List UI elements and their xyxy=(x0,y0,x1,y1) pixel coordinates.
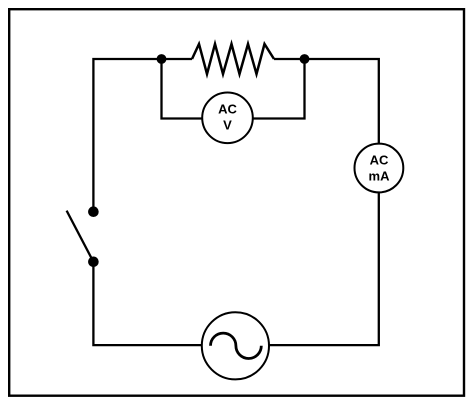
svg-text:AC: AC xyxy=(370,152,389,167)
svg-text:V: V xyxy=(223,118,232,133)
svg-text:mA: mA xyxy=(369,169,391,184)
svg-text:AC: AC xyxy=(218,101,237,116)
